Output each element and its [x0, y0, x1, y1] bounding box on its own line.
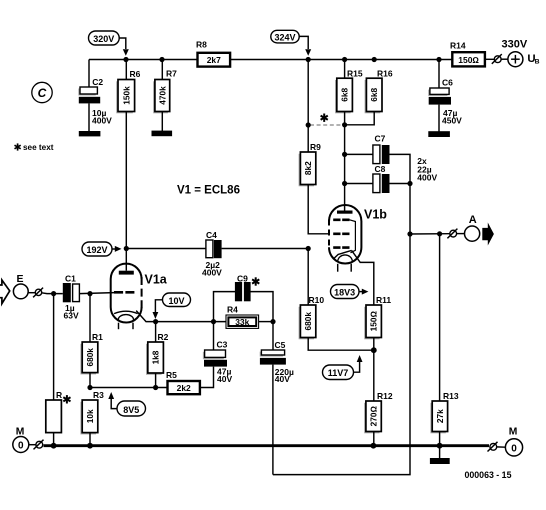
capacitor C6: [428, 60, 462, 132]
copyright symbol: [32, 82, 52, 102]
resistor R13: [430, 391, 458, 458]
svg-text:R9: R9: [310, 142, 321, 152]
wire V1b grid1 column to R10: [307, 249, 309, 306]
svg-text:10V: 10V: [168, 296, 184, 306]
junction dashed link right: [342, 122, 347, 127]
resistor R10: [299, 295, 374, 350]
resistor R12: [364, 391, 393, 446]
svg-text:000063 - 15: 000063 - 15: [465, 470, 512, 480]
ground R13: [430, 458, 450, 464]
svg-text:18V3: 18V3: [334, 288, 355, 298]
node voltage 11V7: [323, 365, 354, 380]
svg-text:R5: R5: [166, 370, 177, 380]
svg-text:270Ω: 270Ω: [369, 405, 379, 426]
junction C7 left: [342, 152, 347, 157]
svg-text:470k: 470k: [157, 86, 167, 105]
resistor R2: [146, 322, 169, 388]
svg-text:10k: 10k: [85, 409, 95, 423]
capacitor C3: [203, 322, 233, 384]
svg-text:150k: 150k: [121, 86, 131, 105]
junction R13 ground rail: [437, 443, 443, 449]
junction rail R9 column: [306, 57, 311, 62]
resistor R6: [116, 60, 140, 249]
svg-text:C5: C5: [275, 340, 286, 350]
junction C3 C9 left: [211, 319, 216, 324]
svg-text:C8: C8: [375, 164, 386, 174]
resistor R4: [226, 305, 259, 329]
junction output feedback: [407, 231, 412, 236]
junction R12 ground rail: [371, 443, 377, 449]
svg-text:V1b: V1b: [364, 208, 387, 222]
svg-text:R16: R16: [377, 68, 393, 78]
input arrow E: [0, 280, 10, 304]
capacitor C2: [78, 77, 112, 132]
junction R10 R11 R12: [371, 347, 377, 353]
wire connector to UB circle: [501, 58, 508, 60]
svg-text:150Ω: 150Ω: [458, 55, 479, 65]
svg-text:A: A: [469, 214, 477, 226]
capacitor C9: [214, 274, 274, 322]
star C9: [252, 277, 259, 285]
connector pin M right: [488, 442, 506, 452]
note see text: [15, 143, 54, 152]
ground R7: [152, 131, 173, 137]
capacitor C7: [345, 134, 410, 184]
resistor R7: [153, 60, 177, 132]
svg-text:R1: R1: [92, 332, 103, 342]
svg-text:1k8: 1k8: [151, 350, 161, 364]
node voltage 320V: [89, 31, 120, 45]
svg-text:324V: 324V: [274, 32, 295, 42]
node voltage 192V: [82, 242, 112, 256]
junction rail R7: [159, 57, 164, 62]
svg-text:R7: R7: [166, 69, 177, 79]
junction input Rstar: [51, 291, 56, 296]
svg-text:400V: 400V: [202, 268, 222, 278]
junction rail C6: [436, 57, 441, 62]
svg-text:400V: 400V: [92, 116, 112, 126]
svg-text:C: C: [38, 86, 47, 100]
wire bias node: [90, 387, 168, 389]
output arrow A: [482, 223, 494, 246]
svg-text:R15: R15: [347, 68, 363, 78]
svg-text:450V: 450V: [442, 116, 462, 126]
wire R14 to supply connector: [485, 58, 494, 60]
svg-text:0: 0: [511, 444, 517, 455]
resistor R16: [345, 68, 393, 125]
svg-text:R12: R12: [377, 391, 393, 401]
wire output node horizontal: [410, 233, 450, 235]
wire 11V7 pointer: [354, 362, 360, 373]
svg-text:33k: 33k: [235, 317, 249, 327]
svg-text:C3: C3: [217, 340, 228, 350]
wire 10V pointer: [155, 300, 162, 313]
svg-text:B: B: [535, 59, 540, 66]
resistor R1: [80, 294, 103, 388]
svg-text:680k: 680k: [303, 312, 313, 331]
wire 324V pointer: [299, 36, 308, 49]
svg-text:C1: C1: [65, 274, 76, 284]
node voltage 10V: [163, 293, 191, 307]
wire R15 bottom to V1b anode: [344, 112, 346, 211]
wire R9 column from rail: [307, 60, 309, 153]
svg-text:V1a: V1a: [145, 273, 168, 287]
wire R13 column: [439, 234, 441, 401]
resistor R8: [196, 40, 230, 67]
svg-text:R8: R8: [196, 40, 207, 50]
junction output R13: [437, 231, 442, 236]
junction R3 rail: [87, 443, 93, 449]
ground C2: [79, 131, 101, 136]
capacitor C5: [260, 322, 294, 475]
wire 192V pointer: [112, 248, 115, 250]
triode V1a: [111, 249, 168, 330]
wire pin to A: [457, 233, 465, 235]
junction V1b grid1: [306, 246, 311, 251]
wire 18V3 pointer: [359, 291, 362, 293]
svg-text:R11: R11: [376, 295, 391, 305]
junction R4 C5: [270, 319, 275, 324]
resistor Rstar: [46, 294, 71, 446]
label C7 C8 value: [417, 156, 437, 183]
wire R4 right to C5: [259, 321, 273, 323]
svg-text:R6: R6: [130, 69, 141, 79]
wire feedback column: [273, 184, 410, 475]
svg-text:R10: R10: [309, 295, 325, 305]
svg-text:C6: C6: [442, 78, 453, 88]
pentode V1b: [329, 205, 387, 272]
svg-text:192V: 192V: [86, 245, 107, 255]
svg-text:R14: R14: [450, 41, 466, 51]
resistor R3: [80, 390, 104, 446]
wire E to pin: [28, 292, 35, 294]
svg-text:M: M: [16, 426, 25, 437]
wire C1 to V1a grid: [79, 293, 114, 294]
ground C6: [428, 131, 450, 137]
svg-text:150Ω: 150Ω: [369, 310, 379, 331]
wire V1a cathode node: [156, 321, 226, 323]
resistor R11: [364, 295, 391, 350]
junction C8 right: [407, 181, 412, 186]
svg-text:R13: R13: [443, 391, 459, 401]
wire 320V pointer: [119, 38, 126, 49]
svg-text:V1 = ECL86: V1 = ECL86: [177, 185, 240, 197]
wire C2 drop from rail: [88, 60, 90, 88]
svg-text:R2: R2: [158, 332, 169, 342]
svg-text:C9: C9: [237, 274, 248, 284]
junction 192V node: [124, 246, 129, 251]
junction R1 R3: [87, 385, 92, 390]
svg-text:6k8: 6k8: [340, 87, 350, 101]
junction dashed link left: [306, 122, 311, 127]
capacitor C8: [345, 164, 410, 193]
connector pin UB: [492, 54, 502, 64]
junction R2 bias: [153, 385, 158, 390]
svg-text:40V: 40V: [275, 374, 290, 384]
svg-text:11V7: 11V7: [328, 368, 349, 378]
svg-text:8k2: 8k2: [303, 161, 313, 175]
terminal M left: [13, 426, 29, 452]
svg-text:2k2: 2k2: [177, 383, 191, 393]
terminal M right: [505, 426, 522, 456]
wire dashed link to R9 column: [310, 124, 342, 126]
svg-text:R3: R3: [93, 390, 104, 400]
svg-text:330V: 330V: [502, 39, 528, 51]
wire 8V5 pointer: [111, 399, 117, 409]
svg-text:0: 0: [18, 441, 24, 452]
connector pin E: [33, 288, 43, 298]
wire R5 to C3: [200, 367, 214, 388]
capacitor C4: [126, 230, 308, 278]
connector pin M left: [29, 440, 44, 450]
terminal A: [465, 214, 480, 241]
wire pin to C1: [42, 292, 63, 295]
wire R9 to V1b grid2: [308, 185, 330, 234]
junction rail R15: [342, 57, 347, 62]
svg-text:400V: 400V: [417, 173, 437, 183]
wire top supply rail right of R8: [230, 59, 452, 61]
node voltage 324V: [271, 30, 299, 43]
ground rail M: [44, 444, 490, 447]
terminal E: [13, 273, 28, 299]
node voltage 8V5: [117, 401, 146, 416]
wire R11 junction to R12: [373, 350, 375, 401]
svg-text:R4: R4: [227, 305, 238, 315]
svg-text:6k8: 6k8: [369, 87, 379, 101]
svg-text:680k: 680k: [85, 348, 95, 367]
node voltage 18V3: [331, 285, 360, 299]
svg-text:M: M: [509, 426, 518, 437]
junction C8 left: [342, 181, 347, 186]
resistor R5: [166, 370, 200, 394]
junction V1a cathode: [153, 319, 158, 324]
resistor R15: [335, 60, 363, 114]
junction rail R6: [123, 57, 128, 62]
svg-text:2k7: 2k7: [207, 55, 221, 65]
svg-text:see text: see text: [23, 143, 54, 152]
svg-text:R: R: [56, 390, 62, 400]
svg-text:27k: 27k: [435, 409, 445, 423]
svg-text:C2: C2: [92, 77, 103, 87]
svg-text:320V: 320V: [93, 34, 114, 44]
capacitor C1: [63, 274, 80, 321]
svg-text:63V: 63V: [64, 311, 79, 321]
resistor R9: [299, 142, 322, 186]
connector pin A: [447, 229, 457, 239]
svg-text:C4: C4: [206, 230, 217, 240]
junction rail R16: [372, 57, 377, 62]
resistor R14: [450, 41, 485, 67]
junction Rstar rail: [51, 443, 57, 449]
power terminal UB 330V: [502, 39, 540, 67]
wire V1b cathode to R11: [352, 250, 374, 305]
svg-text:E: E: [17, 273, 24, 285]
svg-text:40V: 40V: [217, 374, 232, 384]
junction grid R1: [87, 291, 92, 296]
wire top supply rail left: [89, 59, 197, 61]
svg-text:8V5: 8V5: [123, 405, 139, 415]
star dashed link: [321, 114, 328, 122]
svg-text:C7: C7: [375, 134, 386, 144]
